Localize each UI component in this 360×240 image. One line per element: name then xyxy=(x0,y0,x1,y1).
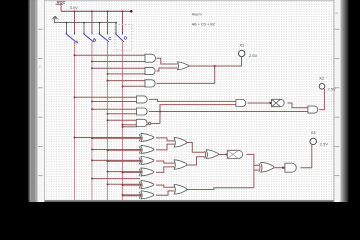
svg-text:VCC: VCC xyxy=(57,0,66,5)
svg-text:A: A xyxy=(75,40,78,45)
svg-text:C: C xyxy=(108,36,111,41)
svg-text:B: B xyxy=(93,38,96,43)
svg-text:AB + CD + BC: AB + CD + BC xyxy=(192,23,216,27)
svg-text:X1: X1 xyxy=(240,43,245,47)
svg-text:D: D xyxy=(124,36,127,41)
svg-text:2.5V: 2.5V xyxy=(328,86,337,91)
svg-text:X3: X3 xyxy=(311,131,316,135)
svg-text:3.0V: 3.0V xyxy=(70,5,79,10)
svg-text:2: 2 xyxy=(39,64,41,68)
svg-text:2.5V: 2.5V xyxy=(320,142,329,147)
svg-text:2.5V: 2.5V xyxy=(249,53,258,58)
svg-text:X2: X2 xyxy=(319,77,324,81)
svg-text:Alarm: Alarm xyxy=(192,12,202,16)
